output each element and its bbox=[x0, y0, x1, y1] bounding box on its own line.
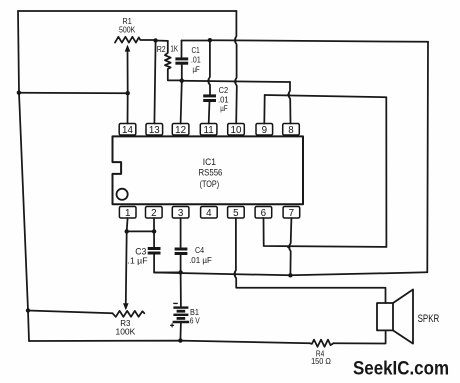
capacitor C3 top plate bbox=[148, 247, 161, 250]
wire: pin 9 column up to corner bbox=[263, 95, 265, 124]
wire: pin 14 column from junction down to pin 14 bbox=[127, 93, 129, 123]
wire: short link from R1 junction to R2 top corner bbox=[156, 40, 168, 42]
wire: C3 bottom lead and corner right to C4 junction bbox=[154, 254, 181, 273]
wire: x386 rail down from pin-9 line to pin-6 line bbox=[385, 97, 387, 247]
wire: left VCC rail down left side bbox=[18, 11, 29, 341]
wire: pin 12 column from junction down to pin 12 bbox=[181, 81, 182, 124]
svg-text:SeekIC.com: SeekIC.com bbox=[353, 358, 449, 380]
wire: bridge between pin-1 and pin-2 columns bbox=[127, 230, 154, 232]
wire: pin 3 column down to C4 bbox=[180, 218, 182, 248]
wire: horizontal VCC feed line y=93 to pin 14 column bbox=[19, 92, 128, 95]
node: junction left rail / pin-14 feed line bbox=[17, 91, 21, 95]
capacitor C1 top plate bbox=[175, 57, 188, 60]
pin 6 box bbox=[255, 207, 272, 220]
pin 14 box bbox=[119, 124, 136, 137]
arrow: R1 wiper arrowhead pointing up bbox=[125, 45, 131, 52]
node: junction R1 right / pin-13 column bbox=[153, 38, 157, 42]
wire: bottom rail from R4 to speaker bottom corner bbox=[334, 330, 386, 343]
IC IC1 pin-1 indicator circle bbox=[117, 189, 128, 200]
hop blob: C2 column over pin-8 line bbox=[206, 79, 210, 83]
hop blob: pin-10 column over pin-8 line bbox=[233, 80, 237, 84]
battery B1 minus sign bbox=[174, 302, 177, 304]
wire: pin 7 column down to ground line junction bbox=[289, 218, 291, 275]
hop blob: pin-8 column over pin-9 line bbox=[286, 93, 290, 97]
pin 7 box bbox=[283, 207, 300, 220]
wire: R3 wiper column from junction down to arrow bbox=[125, 231, 128, 303]
wire: C1 bottom lead to junction bbox=[181, 64, 183, 81]
speaker SPKR horn cone bbox=[393, 290, 413, 344]
pin 3 box bbox=[172, 207, 189, 220]
node: junction pin-7 on ground line bbox=[288, 273, 292, 277]
wire: ground segment from C1 corner right to C2 junction bbox=[182, 40, 210, 42]
pin 12 box bbox=[172, 124, 189, 137]
wire: pin 8 line from R2/C1 junction right to pin-8 corner bbox=[182, 81, 290, 82]
wire: C2 bottom lead down to pin 11 bbox=[208, 101, 211, 123]
pin 11 box bbox=[200, 124, 217, 137]
speaker SPKR frame rectangle bbox=[377, 303, 393, 330]
battery B1 plate short 2 bbox=[177, 317, 186, 320]
wire: C2 upper lead with hop over pin-8 line bbox=[208, 40, 210, 95]
node: junction B1 on bottom rail bbox=[178, 338, 182, 342]
wire: pin 13 column from junction down to pin 13 bbox=[154, 41, 155, 124]
wire: R3 left lead from rail junction bbox=[28, 311, 113, 314]
svg-text:.01 µF: .01 µF bbox=[189, 255, 212, 265]
resistor R2 1K vertical zigzag with leads bbox=[165, 41, 182, 81]
resistor R1 500K zigzag body bbox=[115, 37, 156, 43]
resistor R4 150ohm zigzag body bbox=[310, 340, 334, 347]
wire: ground segment from C2 junction to right rail corner bbox=[210, 40, 428, 42]
resistor R3 100K zigzag body bbox=[113, 311, 145, 317]
pin 9 box bbox=[256, 124, 273, 137]
battery B1 plate short 1 bbox=[177, 310, 186, 313]
node: junction C2 top on ground segment bbox=[208, 38, 212, 42]
capacitor C3 bottom plate bbox=[148, 252, 161, 255]
wire: C4 bottom lead to ground junction bbox=[180, 254, 182, 272]
battery B1 plate long 1 bbox=[173, 306, 188, 308]
hop blob: pin-10 column over ground segment bbox=[233, 38, 237, 42]
wire: pin 1 column down to junction bbox=[126, 218, 129, 231]
svg-text:150 Ω: 150 Ω bbox=[311, 356, 331, 366]
svg-text:C4: C4 bbox=[195, 245, 204, 255]
pin 5 box bbox=[228, 207, 245, 220]
svg-text:6 V: 6 V bbox=[190, 315, 200, 325]
arrow: R3 wiper arrowhead pointing down bbox=[123, 303, 129, 310]
wire: pin 2 column down to C3 bbox=[153, 218, 155, 248]
battery B1 plate long 3 bbox=[173, 321, 190, 323]
battery B1 plus sign bbox=[171, 324, 174, 327]
wire: pin 8 column down from corner with hop over pin-9 line bbox=[288, 82, 290, 124]
wire: pin 5 column with hop over ground line then corner right to speaker bbox=[235, 218, 386, 303]
svg-text:100K: 100K bbox=[116, 327, 136, 337]
capacitor C4 bottom plate bbox=[175, 252, 188, 255]
wire: B1 top lead from ground junction bbox=[180, 272, 182, 306]
node: junction pin-14 column / y93 line bbox=[126, 91, 130, 95]
node: junction C1 bottom / pin-8 line bbox=[180, 79, 184, 83]
hop blob: pin-5 column over ground line bbox=[232, 272, 236, 276]
pin 8 box bbox=[283, 124, 300, 137]
capacitor C1 top lead and corner from ground segment bbox=[181, 41, 183, 59]
wire: ground line from C3 corner to right rail corner bbox=[154, 272, 427, 275]
svg-text:SPKR: SPKR bbox=[418, 313, 440, 325]
hop blob: pin-7 column over pin-6 line bbox=[287, 245, 291, 249]
capacitor C1 bottom plate bbox=[175, 62, 188, 65]
wire: bottom VCC rail bbox=[29, 341, 310, 344]
pin 13 box bbox=[146, 124, 163, 137]
IC IC1 body outline with index notch bbox=[113, 136, 304, 204]
wire: right ground rail down to bottom ground line bbox=[426, 42, 429, 272]
wire: top VCC rail from top-left corner to pin-10 column bbox=[18, 10, 236, 12]
node: junction bridge / pin-2 column bbox=[152, 229, 156, 233]
battery B1 plate long 2 bbox=[173, 314, 188, 316]
pin 2 box bbox=[146, 207, 163, 220]
pin 1 box bbox=[119, 207, 136, 220]
wire: B1 bottom lead to bottom rail bbox=[179, 322, 182, 341]
node: junction pin-1 / pins1-2 bridge bbox=[125, 229, 129, 233]
node: junction R3 left lead on left rail bbox=[26, 308, 30, 312]
capacitor C4 top plate bbox=[175, 248, 188, 251]
capacitor C2 bottom plate bbox=[203, 99, 216, 102]
pin 4 box bbox=[201, 207, 218, 220]
pin 10 box bbox=[228, 124, 245, 137]
node: junction C4/B1 column on ground line bbox=[178, 270, 182, 274]
wire: pin 9 line right to x386 rail corner bbox=[265, 95, 387, 97]
svg-text:.1 µF: .1 µF bbox=[127, 256, 147, 266]
wire: pin 10 column from top rail with hops over two lines bbox=[235, 11, 237, 124]
wire: R1 wiper arm down to y93 junction bbox=[127, 51, 129, 93]
capacitor C2 top plate bbox=[203, 94, 216, 97]
wire: pin 6 column and corner right with hop over pin-7 column bbox=[264, 218, 387, 247]
